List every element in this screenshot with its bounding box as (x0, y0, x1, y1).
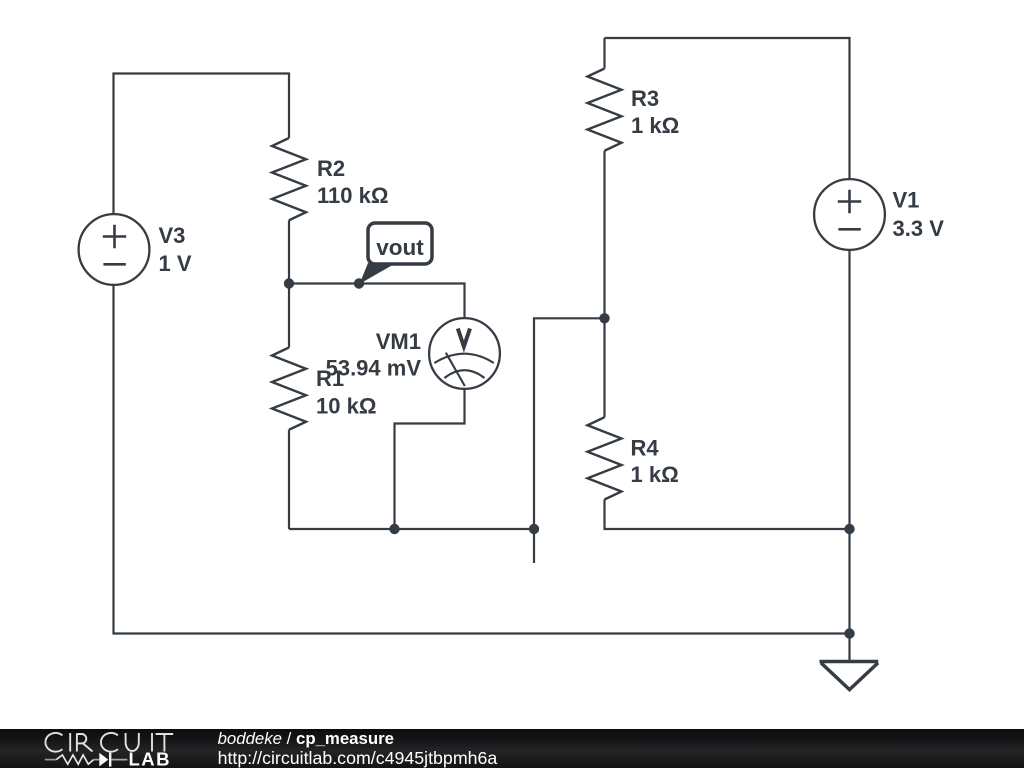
svg-text:R2: R2 (317, 156, 345, 181)
svg-text:VM1: VM1 (376, 329, 421, 354)
svg-text:53.94 mV: 53.94 mV (326, 356, 422, 381)
svg-text:LAB: LAB (129, 748, 172, 768)
svg-text:3.3 V: 3.3 V (893, 216, 945, 241)
svg-text:V3: V3 (159, 223, 186, 248)
svg-text:R3: R3 (631, 86, 659, 111)
svg-text:vout: vout (376, 235, 424, 260)
svg-text:1 kΩ: 1 kΩ (631, 113, 679, 138)
svg-text:1 kΩ: 1 kΩ (631, 462, 679, 487)
svg-text:boddeke / cp_measure: boddeke / cp_measure (218, 729, 394, 748)
svg-text:10 kΩ: 10 kΩ (316, 394, 376, 419)
svg-text:V1: V1 (893, 188, 920, 213)
svg-text:1 V: 1 V (159, 251, 192, 276)
svg-text:http://circuitlab.com/c4945jtb: http://circuitlab.com/c4945jtbpmh6a (218, 748, 498, 768)
svg-text:R4: R4 (631, 436, 660, 461)
svg-text:110 kΩ: 110 kΩ (317, 183, 388, 208)
